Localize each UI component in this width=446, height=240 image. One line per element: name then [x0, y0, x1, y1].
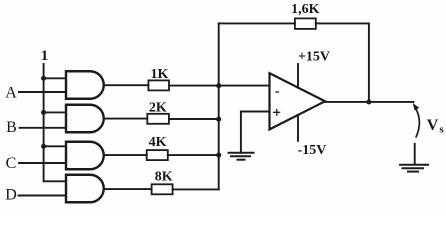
svg-text:1,6K: 1,6K [291, 2, 320, 17]
svg-text:A: A [5, 84, 17, 101]
svg-text:s: s [439, 123, 444, 135]
svg-text:V: V [427, 117, 439, 134]
svg-text:2K: 2K [149, 101, 167, 116]
svg-text:D: D [5, 187, 17, 204]
svg-text:-15V: -15V [298, 143, 327, 158]
svg-text:1K: 1K [151, 67, 169, 82]
svg-text:8K: 8K [155, 169, 173, 184]
svg-text:C: C [6, 155, 17, 172]
svg-text:1: 1 [41, 48, 49, 64]
svg-text:+15V: +15V [298, 50, 330, 65]
svg-text:B: B [6, 119, 17, 136]
svg-text:4K: 4K [149, 135, 167, 150]
